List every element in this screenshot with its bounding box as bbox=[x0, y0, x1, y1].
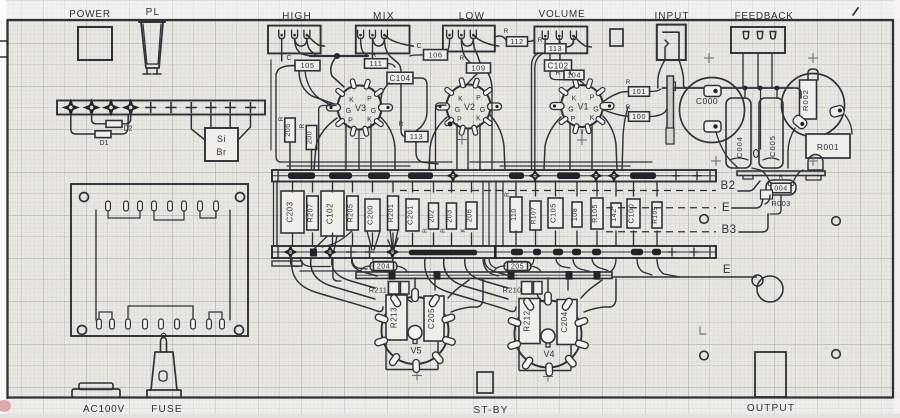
svg-text:105: 105 bbox=[300, 61, 314, 70]
input jack J1 bbox=[657, 25, 686, 60]
svg-text:INPUT: INPUT bbox=[655, 11, 690, 22]
svg-text:R105: R105 bbox=[652, 206, 659, 224]
wires MIX bbox=[361, 39, 368, 57]
tube socket V5 wires bbox=[292, 258, 383, 312]
svg-text:R: R bbox=[299, 123, 306, 128]
svg-text:E: E bbox=[722, 202, 730, 214]
resistor R142 bbox=[611, 203, 621, 227]
resistor R108 bbox=[572, 202, 582, 227]
svg-text:ST-BY: ST-BY bbox=[474, 405, 509, 416]
svg-text:G: G bbox=[346, 108, 351, 115]
svg-text:R212: R212 bbox=[523, 310, 532, 331]
svg-text:K: K bbox=[476, 116, 481, 123]
cross mark bbox=[355, 138, 365, 140]
terminal 004 bbox=[766, 180, 796, 195]
label R003 bbox=[761, 190, 773, 199]
junction dot bbox=[334, 53, 340, 59]
mounting hole bbox=[236, 193, 245, 202]
wires around R002 bbox=[793, 88, 801, 98]
svg-text:C005: C005 bbox=[768, 135, 777, 157]
wire junction to V3 grid bbox=[331, 56, 344, 87]
chassis hole bbox=[700, 351, 709, 360]
svg-text:C205: C205 bbox=[427, 308, 436, 329]
svg-text:R002: R002 bbox=[801, 89, 810, 111]
svg-text:106: 106 bbox=[428, 51, 442, 60]
upper tag strip bbox=[272, 170, 716, 182]
solder lug (free) bbox=[205, 107, 216, 109]
svg-text:100: 100 bbox=[632, 112, 646, 121]
chassis hole bbox=[832, 350, 841, 359]
svg-text:D1: D1 bbox=[100, 140, 109, 147]
grommet between caps bbox=[754, 150, 759, 158]
power switch S1 bbox=[78, 27, 112, 60]
fuse holder bbox=[147, 390, 181, 397]
wire C105 to V3 bbox=[299, 71, 334, 104]
soldered lug group bbox=[533, 249, 541, 256]
chassis hole bbox=[832, 217, 841, 226]
svg-text:P: P bbox=[367, 96, 372, 103]
cross mark bbox=[808, 160, 818, 162]
pot LOW bbox=[443, 26, 495, 52]
svg-text:G: G bbox=[480, 107, 485, 114]
solder lug (free) bbox=[245, 107, 256, 109]
capacitor C204 bbox=[557, 300, 577, 345]
svg-text:PL: PL bbox=[146, 7, 161, 18]
soldered lug group bbox=[509, 172, 524, 179]
free lug bbox=[365, 251, 375, 253]
wires VOLUME bbox=[528, 40, 535, 42]
strip right end cap bbox=[710, 246, 716, 258]
bridge rectifier Si Br bbox=[205, 128, 238, 161]
slant leads C200 R201 bbox=[367, 231, 372, 250]
svg-text:110: 110 bbox=[511, 208, 518, 221]
tube socket V3 bbox=[338, 86, 382, 130]
socket support bar bbox=[356, 272, 612, 278]
cap C102 label bbox=[545, 60, 572, 71]
soldered lug group bbox=[329, 172, 352, 179]
svg-text:K: K bbox=[590, 115, 595, 122]
resistor R207 bbox=[307, 196, 319, 230]
cap C005 bbox=[759, 98, 783, 168]
svg-text:R: R bbox=[779, 175, 784, 181]
grommet hole E bbox=[757, 276, 783, 302]
page margins bbox=[0, 0, 6, 418]
svg-text:203: 203 bbox=[447, 209, 454, 222]
feedback connector bbox=[731, 27, 785, 53]
cap C200 bbox=[365, 199, 380, 231]
soldered lug group bbox=[288, 172, 315, 179]
mounting hole bbox=[80, 193, 89, 202]
slant leads C202 bbox=[313, 237, 327, 251]
svg-text:POWER: POWER bbox=[69, 9, 111, 20]
pilot light PL bbox=[139, 21, 165, 23]
wires 004 to strips bbox=[752, 168, 769, 180]
svg-text:C004: C004 bbox=[735, 136, 744, 158]
svg-text:113: 113 bbox=[410, 132, 423, 141]
output transformer bbox=[755, 352, 786, 397]
bus bar HIGH-MIX bbox=[310, 55, 368, 57]
resistor R201 bbox=[388, 196, 399, 230]
solder lug (free) bbox=[145, 107, 156, 109]
svg-text:V5: V5 bbox=[410, 346, 421, 356]
wire V2 left pin to strip bbox=[436, 105, 447, 170]
resistor R002 bbox=[800, 80, 817, 119]
chassis hole bbox=[700, 215, 709, 224]
wires V1 to R101 R100 bbox=[604, 92, 629, 102]
svg-text:R201: R201 bbox=[388, 204, 395, 223]
soldered lug bbox=[448, 171, 458, 181]
bar lug bbox=[389, 271, 396, 280]
cross mark bbox=[577, 139, 587, 141]
strip right end cap bbox=[710, 170, 716, 182]
wire D1 to lug4 bbox=[110, 114, 128, 134]
mounting plate V4 bbox=[518, 344, 520, 371]
corner tick mark bbox=[853, 8, 858, 15]
wire LOW to R112 bbox=[495, 36, 507, 42]
wire lug290 to bar bbox=[291, 256, 300, 267]
pot VOLUME bbox=[534, 27, 587, 54]
svg-text:R: R bbox=[504, 28, 509, 35]
svg-text:P: P bbox=[348, 118, 353, 125]
soldered lug group bbox=[553, 249, 563, 256]
svg-text:P: P bbox=[571, 116, 576, 123]
svg-text:MIX: MIX bbox=[373, 11, 395, 22]
can mounting bracket bbox=[667, 76, 674, 143]
curve under C200 bbox=[322, 231, 352, 247]
free lug bbox=[693, 175, 702, 177]
svg-text:104: 104 bbox=[567, 71, 581, 80]
svg-text:200: 200 bbox=[307, 131, 314, 144]
svg-text:R: R bbox=[440, 227, 447, 233]
svg-text:112: 112 bbox=[510, 37, 523, 46]
svg-text:C: C bbox=[416, 43, 421, 50]
cap top stubs bbox=[744, 88, 746, 98]
svg-text:P: P bbox=[457, 117, 462, 124]
long wires tubes to bus bbox=[314, 118, 337, 170]
soldered lug bbox=[325, 247, 336, 258]
svg-text:V4: V4 bbox=[543, 349, 554, 359]
wire lug1 to D1 bbox=[71, 114, 95, 134]
cap C004 bbox=[726, 98, 751, 168]
soldered bus bar bbox=[409, 250, 477, 256]
resistor R200 bbox=[306, 126, 317, 150]
wire lug2 to D2 bbox=[92, 114, 106, 124]
svg-text:P: P bbox=[476, 95, 481, 102]
tube socket V5 bbox=[382, 297, 449, 364]
cap C203 bbox=[281, 191, 304, 233]
resistor R107 bbox=[530, 201, 541, 230]
svg-text:K: K bbox=[367, 117, 372, 124]
wire V3 left pin to strip bbox=[319, 106, 336, 171]
capacitor C205 bbox=[424, 296, 444, 341]
resistor R202 bbox=[429, 203, 439, 229]
soldered lug group bbox=[652, 249, 661, 256]
wire C000 lug to bar bbox=[716, 132, 738, 168]
diode D1 bbox=[95, 131, 111, 138]
pot HIGH bbox=[268, 26, 321, 54]
svg-text:R105: R105 bbox=[592, 204, 599, 223]
fuse clips V5 bbox=[389, 282, 400, 295]
bar lug bbox=[594, 271, 601, 280]
svg-text:B2: B2 bbox=[720, 180, 735, 192]
svg-text:108: 108 bbox=[572, 208, 579, 221]
rail E dashed bbox=[606, 207, 716, 209]
soldered lug bbox=[387, 247, 398, 258]
pill terminal 205 bbox=[504, 262, 531, 272]
input jack leads bbox=[658, 60, 665, 88]
svg-text:113: 113 bbox=[549, 44, 562, 53]
resistor R206 bbox=[285, 118, 296, 142]
svg-text:R107: R107 bbox=[531, 207, 538, 225]
transformer top lugs bbox=[106, 201, 111, 211]
V5 center hub bbox=[408, 326, 422, 340]
svg-text:VOLUME: VOLUME bbox=[538, 9, 585, 20]
stand-by switch bbox=[477, 372, 493, 393]
svg-text:R: R bbox=[504, 191, 511, 197]
svg-text:OUTPUT: OUTPUT bbox=[747, 403, 795, 414]
free lug bbox=[672, 175, 681, 177]
top lug jumpers bbox=[108, 211, 140, 218]
svg-text:C104: C104 bbox=[389, 74, 410, 83]
svg-text:R: R bbox=[556, 70, 561, 77]
wires pots to tubes bbox=[281, 39, 283, 62]
cap mounting bar bbox=[737, 171, 825, 176]
svg-text:K: K bbox=[460, 227, 467, 232]
V4 socket pins bbox=[507, 317, 521, 328]
cap C100 bbox=[627, 199, 640, 228]
resistor R212 bbox=[519, 299, 540, 344]
free lug bbox=[690, 251, 699, 253]
R001 grommet bbox=[808, 155, 823, 171]
tube socket V2 bbox=[447, 85, 491, 129]
svg-text:C201: C201 bbox=[406, 205, 415, 225]
resistor R001 bbox=[806, 134, 850, 158]
svg-text:R: R bbox=[538, 37, 543, 44]
svg-text:C102: C102 bbox=[326, 203, 335, 224]
svg-text:G: G bbox=[455, 107, 460, 114]
solder lug (used) bbox=[104, 101, 118, 115]
R002 top tab bbox=[808, 69, 818, 80]
svg-text:R: R bbox=[626, 79, 631, 86]
svg-text:C: C bbox=[286, 55, 291, 62]
strip end link bbox=[276, 181, 278, 246]
pill terminal 204 bbox=[370, 262, 397, 272]
V5 socket pins bbox=[374, 313, 388, 324]
solder lug (free) bbox=[225, 107, 236, 109]
svg-text:G: G bbox=[593, 107, 598, 114]
soldered lug group bbox=[368, 172, 390, 179]
bottom lug jumpers bbox=[99, 312, 112, 319]
svg-text:K: K bbox=[349, 97, 354, 104]
tube socket V4 bbox=[515, 301, 582, 368]
power terminal strip TS1 bbox=[57, 101, 265, 115]
free lug bbox=[346, 251, 356, 253]
rail B3 dashed bbox=[606, 231, 716, 233]
soldered lug bbox=[530, 171, 540, 181]
svg-text:FEEDBACK: FEEDBACK bbox=[735, 11, 794, 22]
svg-text:111: 111 bbox=[370, 59, 383, 68]
square lug bbox=[310, 249, 317, 257]
svg-text:206: 206 bbox=[467, 209, 474, 222]
svg-text:C105: C105 bbox=[549, 203, 558, 223]
resistor R213 bbox=[386, 295, 407, 340]
svg-text:R: R bbox=[422, 227, 429, 233]
svg-text:D2: D2 bbox=[124, 126, 133, 133]
lug tick bbox=[494, 245, 497, 259]
solder joint bbox=[758, 86, 763, 91]
soldered lug group bbox=[631, 249, 643, 256]
soldered lug bbox=[609, 171, 619, 181]
soldered lug group bbox=[408, 172, 433, 179]
svg-text:205: 205 bbox=[511, 264, 524, 271]
cap C201 bbox=[406, 199, 419, 231]
svg-text:AC100V: AC100V bbox=[83, 404, 125, 415]
small bracket right of VOLUME bbox=[610, 29, 623, 46]
svg-text:C204: C204 bbox=[560, 311, 569, 332]
svg-text:Br: Br bbox=[217, 147, 227, 157]
horizontal bus wires above strip bbox=[281, 161, 452, 163]
bar lug bbox=[434, 271, 441, 280]
cross mark bbox=[412, 375, 422, 377]
cap C202 bbox=[321, 191, 344, 236]
AC inlet bbox=[72, 389, 120, 398]
svg-text:V3: V3 bbox=[355, 103, 366, 113]
cap C105b bbox=[548, 198, 563, 228]
cross mark bbox=[457, 139, 467, 141]
svg-text:C200: C200 bbox=[366, 205, 375, 225]
junction wire line bbox=[662, 87, 793, 89]
svg-text:K: K bbox=[458, 96, 463, 103]
tube socket V4 wires bbox=[425, 258, 516, 312]
svg-text:R205: R205 bbox=[348, 204, 355, 223]
power transformer PT outline bbox=[71, 184, 248, 336]
fuse clips V4 bbox=[522, 282, 533, 295]
svg-text:R207: R207 bbox=[308, 204, 315, 223]
diode D2 bbox=[106, 121, 122, 128]
soldered lug bbox=[285, 247, 296, 258]
svg-text:R213: R213 bbox=[390, 307, 399, 328]
resistor R103 bbox=[652, 202, 662, 228]
soldered lug group bbox=[557, 172, 580, 179]
component leads to strips bbox=[292, 181, 294, 192]
soldered lug group bbox=[630, 172, 656, 179]
svg-text:P: P bbox=[590, 95, 595, 102]
pencil corner mark bbox=[700, 327, 706, 334]
capacitor can C000 bbox=[680, 78, 745, 143]
svg-text:206: 206 bbox=[285, 123, 292, 136]
junction dot V2 bbox=[448, 122, 453, 127]
svg-text:202: 202 bbox=[429, 209, 436, 222]
soldered lug group bbox=[572, 249, 581, 256]
resistor R205 bbox=[347, 196, 359, 230]
inter-strip wires bbox=[482, 181, 484, 246]
svg-text:204: 204 bbox=[377, 264, 390, 271]
C000 top lug bbox=[704, 86, 721, 97]
svg-text:R: R bbox=[278, 116, 285, 121]
svg-text:FUSE: FUSE bbox=[151, 404, 182, 415]
solder joint bbox=[743, 86, 748, 91]
transformer inner frame bbox=[95, 210, 97, 320]
svg-text:HIGH: HIGH bbox=[282, 11, 312, 22]
wire HIGH ground down bbox=[276, 74, 281, 162]
lower tag strip bbox=[272, 246, 716, 258]
grommet small bbox=[752, 275, 763, 286]
svg-text:R001: R001 bbox=[817, 142, 839, 152]
wires LOW bbox=[447, 39, 449, 55]
dashed rail B2 bbox=[400, 190, 716, 192]
lug right bbox=[829, 105, 845, 118]
wire D2 to lug4 bbox=[122, 114, 131, 124]
V4 center hub bbox=[541, 329, 555, 343]
hook under lug330 bbox=[333, 258, 341, 281]
solder lug (free) bbox=[186, 107, 197, 109]
svg-text:142: 142 bbox=[611, 208, 618, 221]
solder lug (used) bbox=[64, 101, 78, 115]
soldered lug bbox=[591, 171, 601, 181]
cross mark bbox=[711, 160, 721, 162]
bracket bar left bbox=[272, 261, 302, 266]
solder joint bbox=[775, 86, 780, 91]
svg-text:V2: V2 bbox=[464, 102, 475, 112]
lug left bbox=[791, 114, 808, 131]
solder lug (used) bbox=[85, 101, 99, 115]
mounting hole bbox=[78, 326, 87, 335]
resistor R203 bbox=[447, 203, 457, 229]
svg-text:G: G bbox=[371, 108, 376, 115]
V wires into lug392 bbox=[388, 238, 398, 250]
bar lug bbox=[566, 271, 573, 280]
cross mark bbox=[704, 57, 714, 59]
svg-text:109: 109 bbox=[471, 64, 485, 73]
svg-text:B3: B3 bbox=[721, 224, 736, 236]
bar lug bbox=[508, 271, 515, 280]
soldered lug group bbox=[511, 249, 523, 256]
svg-text:C203: C203 bbox=[286, 201, 295, 222]
cap C104 label bbox=[387, 72, 413, 84]
svg-text:004: 004 bbox=[774, 186, 787, 193]
svg-text:G: G bbox=[568, 107, 573, 114]
strip link wires left bbox=[273, 182, 275, 246]
svg-text:V1: V1 bbox=[577, 102, 588, 112]
tube socket V1 bbox=[561, 85, 603, 127]
C000 bottom lug bbox=[704, 121, 721, 132]
transformer bottom lugs bbox=[97, 319, 102, 329]
svg-text:R: R bbox=[460, 55, 465, 62]
svg-text:C000: C000 bbox=[696, 96, 718, 106]
resistor R105 bbox=[591, 198, 603, 229]
svg-text:E: E bbox=[723, 264, 731, 276]
svg-text:LOW: LOW bbox=[459, 11, 485, 22]
output transformer circle bbox=[782, 74, 845, 137]
solder lug (used) bbox=[124, 101, 138, 115]
pink smudge bottom-left bbox=[0, 400, 11, 412]
mounting hole bbox=[235, 326, 244, 335]
svg-text:Si: Si bbox=[217, 134, 226, 144]
cross mark bbox=[808, 57, 818, 59]
free lug bbox=[668, 251, 677, 253]
loops below lower strip bbox=[483, 258, 498, 276]
svg-text:101: 101 bbox=[632, 87, 646, 96]
rail E to output bbox=[612, 276, 757, 278]
soldered lug group bbox=[592, 249, 601, 256]
pot MIX bbox=[356, 26, 410, 54]
solder lug (free) bbox=[166, 107, 177, 109]
svg-text:C100: C100 bbox=[627, 204, 636, 224]
cap C206 bbox=[466, 202, 477, 229]
cross mark bbox=[543, 376, 553, 378]
mounting plate V5 bbox=[385, 341, 387, 370]
wires to bridge bbox=[191, 114, 205, 140]
